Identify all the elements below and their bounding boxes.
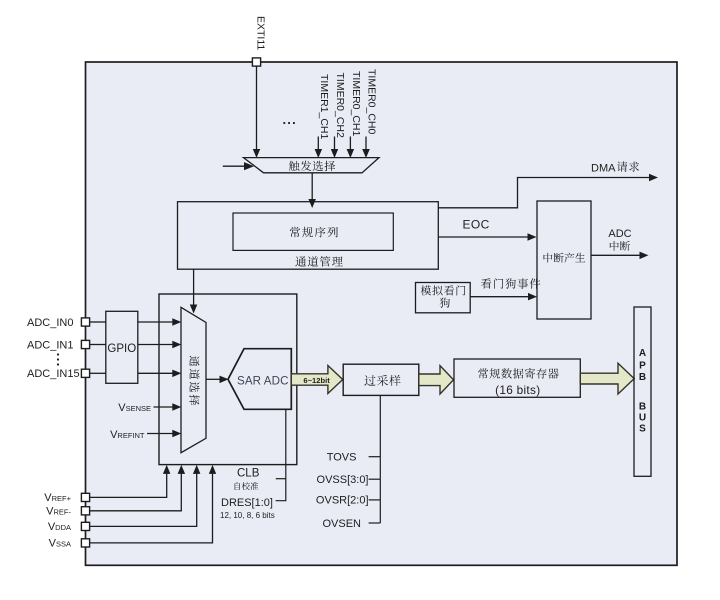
svg-text:S: S [639, 424, 646, 435]
wire watchdog event [470, 296, 529, 298]
label 模拟看门 [421, 285, 466, 295]
label 看门狗事件 [481, 278, 540, 288]
oversampler box [343, 364, 419, 395]
tick OVSS[3:0] [369, 478, 381, 480]
pin EXTI11 [252, 58, 260, 66]
label TIMER0_CH0 [366, 69, 378, 135]
wire EOC [438, 236, 528, 238]
wire DMA request [438, 178, 649, 208]
label 自校准 [235, 482, 259, 490]
wire EXTI11 vertical [256, 67, 258, 151]
pin VREF+ [81, 493, 89, 501]
pin VREF- [81, 507, 89, 515]
wire ADC_IN15 to GPIO [90, 372, 106, 374]
APB BUS box [634, 307, 651, 476]
ellipsis ADC_IN channels [57, 353, 59, 365]
wire TIMER0_CH0 [365, 137, 367, 151]
wire TIMER1_CH1 [317, 137, 319, 151]
svg-text:ADC_IN0: ADC_IN0 [27, 317, 73, 329]
block arrow oversampler to data reg [419, 366, 454, 394]
label 触发选择 [289, 161, 335, 172]
svg-text:(16 bits): (16 bits) [495, 383, 540, 397]
svg-text:U: U [639, 413, 646, 424]
label TIMER1_CH1 [318, 74, 330, 140]
pin VDDA [81, 522, 89, 530]
tick TOVS [369, 456, 381, 458]
svg-text:...: ... [283, 112, 297, 127]
label 过采样 [364, 375, 400, 386]
wire GPIO to mux (ADC_IN1) [138, 344, 173, 346]
wire VDDA [90, 474, 197, 527]
svg-text:VSSA: VSSA [49, 538, 71, 550]
svg-text:DMA: DMA [591, 163, 616, 175]
label EXTI11 [255, 16, 267, 50]
wire TIMER0_CH2 [334, 137, 336, 151]
label 狗 [440, 298, 450, 308]
svg-text:B: B [639, 402, 646, 413]
wire ADC interrupt [591, 254, 640, 256]
label TIMER0_CH1 [350, 71, 362, 137]
wire GPIO to mux (ADC_IN0) [138, 321, 173, 323]
regular-data-register box [454, 359, 580, 397]
wire ADC_IN0 to GPIO [90, 321, 106, 323]
svg-text:SAR ADC: SAR ADC [237, 374, 289, 387]
svg-text:OVSEN: OVSEN [322, 518, 361, 530]
svg-text:VREFINT: VREFINT [110, 429, 145, 441]
label 常规序列 [290, 227, 338, 238]
svg-text:ADC: ADC [608, 228, 631, 240]
svg-text:TIMER0_CH0: TIMER0_CH0 [366, 69, 378, 135]
svg-text:VREF-: VREF- [46, 505, 71, 517]
wire ADC_IN1 to GPIO [90, 344, 106, 346]
wire sw-trigger [223, 165, 245, 167]
label 中断 [610, 241, 630, 251]
wire GPIO to mux (ADC_IN15) [138, 372, 173, 374]
pin ADC_IN15 [81, 369, 89, 377]
svg-text:6~12bit: 6~12bit [303, 376, 330, 385]
wire channel-mgmt to mux [193, 269, 195, 305]
wire trigger to channel-mgmt [311, 174, 313, 201]
outer ADC module box [86, 62, 678, 565]
svg-text:EXTI11: EXTI11 [255, 16, 267, 50]
label 通道选择 (rotated) [189, 356, 199, 406]
svg-text:VSENSE: VSENSE [118, 402, 151, 414]
pin ADC_IN0 [81, 318, 89, 326]
GPIO box [106, 311, 138, 383]
SAR ADC pentagon [228, 349, 291, 410]
tick CLB calibration [276, 478, 286, 480]
wire VREF- [90, 474, 181, 511]
label 请求 [617, 161, 639, 171]
svg-text:B: B [639, 372, 646, 383]
wire VSSA [90, 474, 213, 543]
label 通道管理 [295, 256, 343, 267]
svg-text:TOVS: TOVS [327, 452, 357, 464]
svg-text:OVSR[2:0]: OVSR[2:0] [316, 495, 369, 507]
label 常规数据寄存器 [478, 368, 559, 379]
label TIMER0_CH2 [334, 73, 346, 139]
analog-watchdog box [416, 283, 471, 313]
svg-text:A: A [639, 348, 646, 359]
svg-text:12, 10, 8, 6 bits: 12, 10, 8, 6 bits [220, 511, 275, 520]
CLB self-calibration box [159, 294, 297, 465]
wire oversampler config [379, 396, 381, 523]
svg-text:TIMER1_CH1: TIMER1_CH1 [318, 74, 330, 140]
svg-text:EOC: EOC [463, 218, 490, 232]
wire VREF+ [90, 474, 167, 498]
svg-text:TIMER0_CH2: TIMER0_CH2 [334, 73, 346, 139]
wire TIMER0_CH1 [349, 137, 351, 151]
label 中断产生 [544, 253, 586, 263]
wire mux to SAR [206, 378, 220, 380]
wire SAR to DRES [276, 409, 286, 500]
tick OVSEN [369, 522, 381, 524]
svg-text:DRES[1:0]: DRES[1:0] [221, 497, 273, 509]
svg-text:TIMER0_CH1: TIMER0_CH1 [350, 71, 362, 137]
wire VSENSE [154, 406, 173, 408]
svg-text:VDDA: VDDA [48, 521, 71, 533]
pin ADC_IN1 [81, 340, 89, 348]
block arrow data reg to APB [580, 363, 634, 394]
svg-text:VREF+: VREF+ [44, 492, 71, 504]
svg-text:CLB: CLB [237, 468, 260, 480]
svg-text:GPIO: GPIO [107, 343, 136, 355]
tick OVSR[2:0] [369, 499, 381, 501]
channel-management box [178, 202, 439, 270]
svg-text:ADC_IN15: ADC_IN15 [27, 368, 80, 380]
wire VREFINT [147, 433, 173, 435]
regular-sequence box [233, 213, 393, 250]
svg-text:ADC_IN1: ADC_IN1 [27, 339, 73, 351]
pin VSSA [81, 539, 89, 547]
channel-select mux [181, 307, 206, 452]
svg-text:OVSS[3:0]: OVSS[3:0] [317, 474, 369, 486]
svg-text:P: P [639, 361, 646, 372]
block arrow 6~12bit [291, 366, 342, 394]
trigger-select trapezoid [244, 158, 380, 173]
interrupt-generation box [537, 201, 591, 319]
